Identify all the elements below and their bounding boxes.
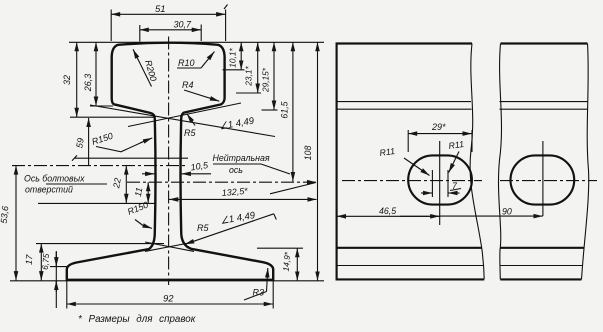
vertical center axis of cross-section xyxy=(168,37,170,286)
svg-text:32: 32 xyxy=(62,75,72,85)
bolt holes axis line (dash-dot) xyxy=(12,165,188,167)
dimension 7 xyxy=(421,181,461,193)
label R150 lower xyxy=(126,200,152,229)
label axis of bolt holes xyxy=(24,174,107,195)
svg-text:R4: R4 xyxy=(182,80,194,90)
svg-text:17: 17 xyxy=(24,253,35,265)
svg-text:Нейтральная: Нейтральная xyxy=(213,153,270,163)
dimension 32 xyxy=(62,42,77,117)
dimension 6,75 xyxy=(40,251,56,308)
label R11 left xyxy=(379,146,430,176)
rail cross-section profile xyxy=(67,43,273,280)
dimension 90 xyxy=(440,206,543,216)
label R200 xyxy=(133,49,159,86)
label R10 xyxy=(177,52,215,69)
svg-text:29,15*: 29,15* xyxy=(261,67,271,93)
svg-text:22: 22 xyxy=(111,177,123,190)
svg-text:* Размеры для справок: * Размеры для справок xyxy=(78,314,196,325)
svg-text:29*: 29* xyxy=(431,122,446,132)
dimension 23,1* xyxy=(236,42,261,93)
dimension 29* xyxy=(408,122,472,152)
svg-text:90: 90 xyxy=(502,206,512,216)
left bolt hole xyxy=(408,155,472,204)
svg-text:61,5: 61,5 xyxy=(280,101,290,118)
dimension 108 xyxy=(303,42,318,280)
slope construction line lower X xyxy=(145,242,194,251)
svg-text:51: 51 xyxy=(155,4,166,15)
side view right piece outline xyxy=(498,44,588,280)
right bolt hole xyxy=(511,155,575,204)
dimension 11 xyxy=(133,182,148,203)
dimension 29,15* xyxy=(261,42,278,110)
left hole R-center ticks xyxy=(432,170,448,197)
slope construction line 1:4,49 upper (left underside extended) xyxy=(90,105,275,137)
dimension 22 xyxy=(111,166,126,204)
label R3 xyxy=(244,268,268,300)
slope construction line lower X mirror xyxy=(145,242,194,251)
svg-text:6,75: 6,75 xyxy=(40,253,51,270)
bottom extension line xyxy=(10,280,324,282)
svg-text:R10: R10 xyxy=(178,58,195,68)
dimension 51 xyxy=(111,4,227,41)
dimension 53,6 xyxy=(0,166,16,281)
dimension 61,5 xyxy=(280,42,293,181)
svg-text:ось: ось xyxy=(229,165,243,175)
dimension 14,9* xyxy=(281,248,298,281)
dimension 92 xyxy=(67,281,273,309)
dimension 46,5 xyxy=(337,206,440,216)
bolt hole axis (side view) xyxy=(342,180,597,182)
dimension 10,5 (web thickness) xyxy=(142,160,211,174)
extension line 6,75 xyxy=(50,266,67,268)
svg-text:R5: R5 xyxy=(197,223,209,233)
svg-text:R5: R5 xyxy=(184,128,196,138)
svg-text:23,1*: 23,1* xyxy=(244,66,254,87)
label R5 lower and slope 1:4,49 xyxy=(185,210,276,244)
svg-text:59: 59 xyxy=(74,137,86,149)
svg-text:26,3: 26,3 xyxy=(83,74,93,93)
side view head-web lines xyxy=(337,102,588,110)
dimension 30,7 xyxy=(140,20,201,42)
right hole center line xyxy=(542,141,544,216)
dimension 26,3 xyxy=(83,42,96,106)
label R4 xyxy=(182,80,219,101)
dimension 59 xyxy=(74,118,88,166)
label neutral axis xyxy=(213,153,291,175)
left hole center line xyxy=(439,141,441,225)
label R5 upper xyxy=(184,114,196,138)
svg-text:92: 92 xyxy=(163,294,174,305)
reference line at 59 with tick xyxy=(72,155,188,160)
svg-text:46,5: 46,5 xyxy=(379,206,396,216)
svg-text:Ось болтовых: Ось болтовых xyxy=(24,174,85,184)
dimension 17 xyxy=(24,244,42,281)
side view left piece outline xyxy=(337,44,485,280)
side view web-foot lines xyxy=(337,248,584,266)
extension line for 17 xyxy=(36,243,164,245)
top extension line xyxy=(69,41,324,43)
extension line at head bottom (32) xyxy=(70,116,154,118)
slope construction line upper mirror xyxy=(128,103,241,127)
svg-text:53,6: 53,6 xyxy=(0,206,10,224)
reference line below web xyxy=(38,202,155,204)
extension line 26,3 xyxy=(90,105,113,107)
dimension 10,1* xyxy=(223,42,245,70)
svg-text:10,1*: 10,1* xyxy=(228,48,238,68)
svg-text:11: 11 xyxy=(133,187,144,198)
svg-text:108: 108 xyxy=(303,146,313,161)
label R150 upper xyxy=(91,131,153,152)
dimension 132,5* xyxy=(169,183,317,200)
label R11 right xyxy=(448,139,465,173)
svg-text:отверстий: отверстий xyxy=(25,185,73,195)
svg-text:30,7: 30,7 xyxy=(174,20,193,30)
svg-text:14,9*: 14,9* xyxy=(281,251,293,272)
neutral axis line (dash-dot with arrow) xyxy=(127,181,317,183)
extension line 14,9 xyxy=(257,247,303,249)
